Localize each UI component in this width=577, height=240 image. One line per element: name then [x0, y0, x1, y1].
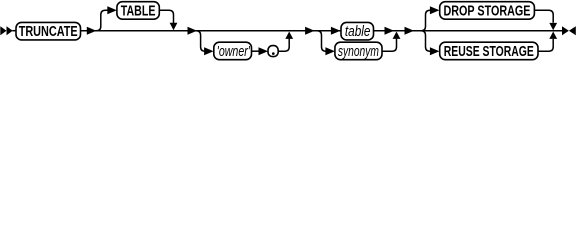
- arrow after TRUNCATE: [87, 27, 97, 35]
- arrow into DROP STORAGE: [430, 6, 440, 14]
- wire storage split up path: [421, 10, 432, 31]
- arrow down from DROP STORAGE: [549, 23, 557, 30]
- arrow after table box: [385, 27, 395, 35]
- svg-text:synonym: synonym: [338, 44, 379, 60]
- arrow into TABLE: [107, 6, 117, 14]
- end symbol bowtie: [562, 26, 569, 35]
- wire owner split down path: [196, 31, 206, 52]
- arrow down from TABLE: [170, 23, 178, 30]
- svg-text:TRUNCATE: TRUNCATE: [19, 24, 78, 40]
- keyword box TRUNCATE: [16, 22, 81, 40]
- wire TABLE exit down path: [159, 10, 173, 23]
- svg-text:DROP STORAGE: DROP STORAGE: [444, 3, 531, 19]
- wire DROP STORAGE exit down path: [534, 10, 553, 23]
- wire owner to period: [252, 50, 261, 52]
- period dot terminal .: [272, 52, 275, 55]
- keyword box REUSE STORAGE: [440, 42, 538, 60]
- terminal box period: [268, 46, 278, 57]
- arrow into REUSE STORAGE: [430, 47, 440, 55]
- svg-text:TABLE: TABLE: [121, 3, 156, 19]
- arrow on main line before table split: [305, 27, 315, 35]
- variable box owner: [214, 42, 252, 60]
- wire synonym return up path: [382, 39, 397, 51]
- arrow up from REUSE STORAGE: [549, 32, 557, 39]
- wire TABLE loop up path: [96, 10, 108, 31]
- arrow after synonym merge: [405, 27, 415, 35]
- arrow on main line after TABLE merge: [188, 27, 198, 35]
- variable box synonym: [335, 42, 382, 60]
- arrow into period: [259, 47, 269, 55]
- svg-text:'owner': 'owner': [217, 44, 251, 60]
- svg-text:REUSE STORAGE: REUSE STORAGE: [444, 44, 534, 60]
- wire owner return up path: [278, 39, 289, 51]
- keyword box DROP STORAGE: [440, 2, 535, 20]
- arrow up synonym return: [393, 32, 401, 39]
- arrow into table: [331, 27, 341, 35]
- svg-text:table: table: [345, 24, 371, 40]
- wire REUSE STORAGE exit up path: [538, 39, 553, 51]
- wire synonym split down path: [317, 31, 327, 52]
- start symbol double arrow: [0, 26, 6, 35]
- wire main line segment 3: [374, 30, 563, 32]
- variable box table: [341, 22, 374, 40]
- wire main line segment 2: [81, 30, 342, 32]
- arrow into owner: [204, 47, 214, 55]
- wire main line segment 1: [12, 30, 16, 32]
- wire storage split down path: [421, 31, 432, 52]
- arrow up owner return: [285, 32, 293, 39]
- keyword box TABLE: [117, 2, 159, 20]
- arrow into synonym: [325, 47, 335, 55]
